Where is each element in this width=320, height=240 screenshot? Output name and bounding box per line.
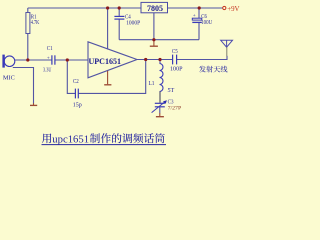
ground (C3) — [156, 113, 164, 117]
microphone MIC — [4, 55, 15, 68]
junction node: L1 on output — [158, 58, 161, 61]
wire: 7805 ground pin — [153, 13, 155, 40]
terminal +9V — [223, 6, 226, 9]
resistor R1 — [26, 13, 30, 34]
junction node: input node at C2 branch — [66, 58, 69, 61]
svg-text:upc1651: upc1651 — [52, 134, 89, 145]
svg-text:3.3U: 3.3U — [43, 68, 52, 74]
wire: mic output to C1 — [14, 59, 51, 61]
wire: C6 top lead — [198, 8, 200, 18]
wire: C2 to output node feedback return — [78, 60, 145, 94]
svg-text:C6: C6 — [201, 14, 207, 20]
svg-text:4.7K: 4.7K — [31, 20, 40, 26]
svg-text:100P: 100P — [170, 67, 183, 73]
antenna — [221, 40, 233, 56]
svg-text:C5: C5 — [172, 49, 178, 55]
wire: R1 top lead — [27, 8, 29, 13]
svg-text:L1: L1 — [149, 81, 155, 87]
wire: C3 bottom lead — [159, 107, 161, 113]
capacitor C1 (electrolytic 3.3U) — [52, 55, 55, 64]
wire: C6 bottom lead — [198, 22, 200, 39]
svg-text:C1: C1 — [47, 46, 53, 52]
svg-text:C3: C3 — [168, 99, 174, 105]
wire: top +5V rail left of 7805 — [28, 7, 141, 9]
arrowhead of C3 — [163, 100, 167, 104]
svg-text:UPC1651: UPC1651 — [89, 57, 122, 66]
caption 用upc1651制作的调频话筒 — [42, 133, 167, 145]
wire: Vcc pin from rail to amp top edge — [107, 8, 109, 50]
junction node: C6 on rail — [198, 6, 201, 9]
ground (amp GND pin) — [104, 71, 111, 85]
inductor L1 (5T coil) — [160, 64, 164, 92]
wire: amp output line to C5 — [137, 59, 172, 61]
svg-text:5T: 5T — [168, 88, 175, 94]
wire: mic ground lead horizontal — [13, 68, 34, 104]
capacitor C4 (1000P) — [114, 16, 124, 19]
svg-text:15p: 15p — [73, 102, 82, 108]
wire: R1 bottom lead to input node — [27, 34, 29, 61]
wire: ground bus C4 to C6 — [119, 39, 199, 41]
svg-text:C2: C2 — [73, 79, 79, 85]
capacitor C6 (electrolytic 100U) — [192, 18, 202, 22]
wire: C5 to antenna — [177, 56, 227, 60]
op-amp U1 UPC1651 — [88, 42, 137, 78]
wire: C2 feedback branch down from input node — [67, 60, 75, 93]
junction node: C4 on rail — [118, 6, 121, 9]
ground (7805 GND) — [150, 41, 158, 47]
wire: L1 to C3 stem — [159, 92, 161, 103]
svg-text:+: + — [47, 55, 50, 61]
svg-text:+9V: +9V — [227, 5, 239, 13]
junction node: Vcc pin on rail — [106, 6, 109, 9]
svg-text:7/27P: 7/27P — [168, 106, 182, 112]
wire: C4 bottom lead — [118, 19, 120, 40]
svg-text:1000P: 1000P — [126, 21, 141, 27]
wire: C4 top lead — [118, 8, 120, 16]
sheet background — [0, 0, 240, 148]
wire: C1 right plate to amp input — [55, 59, 88, 61]
ground (mic) — [30, 103, 37, 105]
svg-text:+: + — [193, 13, 196, 19]
junction node: input node at R1 — [26, 58, 29, 61]
capacitor C5 (100P) — [173, 55, 177, 65]
wire: top rail right of 7805 to +9V terminal — [168, 7, 223, 9]
wire: L1 top lead — [159, 60, 161, 64]
junction node: feedback on output — [144, 58, 147, 61]
regulator 7805 — [141, 2, 168, 12]
svg-text:MIC: MIC — [3, 75, 15, 81]
capacitor C3 (variable 7/27P) — [152, 101, 166, 112]
capacitor C2 (15p feedback) — [75, 89, 78, 99]
junction node: 7805 gnd — [152, 38, 155, 41]
label 发射天线 — [199, 66, 227, 73]
svg-text:7805: 7805 — [147, 3, 164, 13]
svg-text:100U: 100U — [201, 20, 213, 26]
